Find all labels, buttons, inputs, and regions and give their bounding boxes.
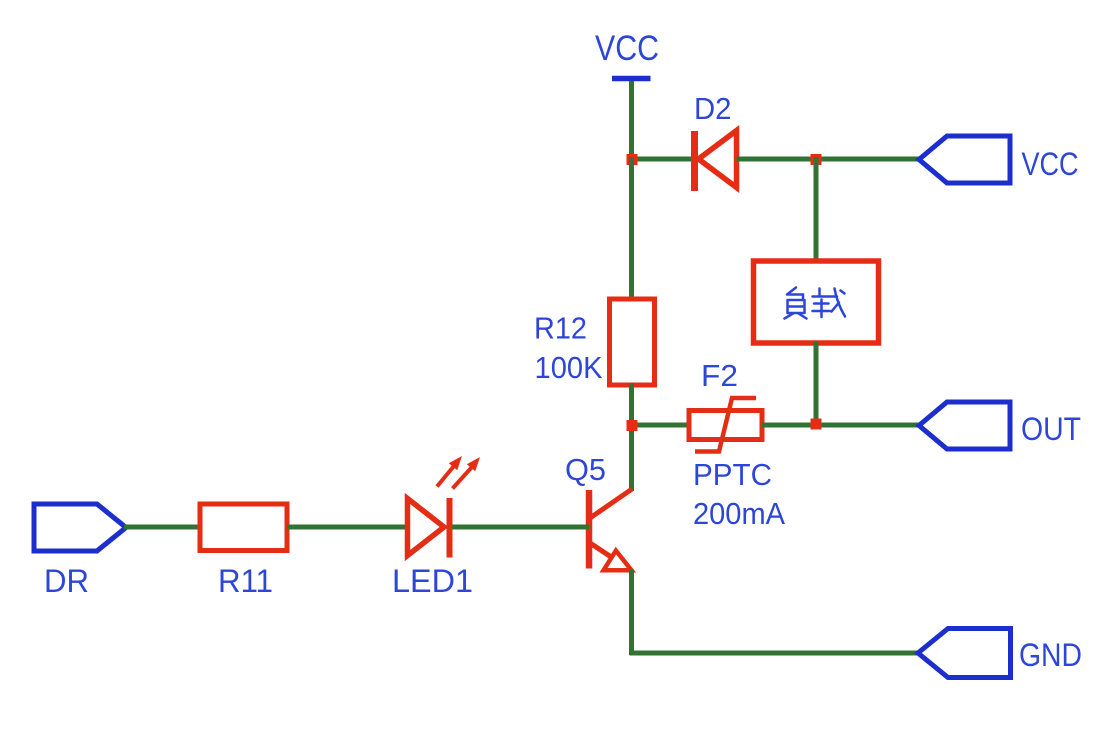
svg-text:PPTC: PPTC (693, 457, 772, 492)
resistor R11 (200, 504, 287, 551)
wire R11 to LED1 (287, 525, 409, 530)
svg-text:R11: R11 (218, 563, 273, 599)
junction node C (811, 419, 822, 430)
transistor Q5 (589, 489, 632, 570)
wire R12 to node D (629, 383, 634, 491)
wire node A to R12 (629, 157, 634, 301)
svg-text:100K: 100K (535, 350, 603, 385)
svg-text:LED1: LED1 (392, 563, 473, 599)
wire LED1 to Q5 base (452, 525, 589, 530)
wire port DR to R11 (124, 525, 202, 530)
wire node B to load (814, 157, 819, 263)
wire F2 to node C (762, 423, 816, 428)
load box (fuzai) (754, 261, 879, 343)
junction node D (627, 420, 638, 431)
svg-text:Q5: Q5 (565, 452, 606, 487)
wire node A to D2 anode (630, 157, 693, 162)
wire load to node C (814, 341, 819, 427)
fuse F2 PPTC (689, 398, 762, 452)
svg-text:R12: R12 (534, 311, 587, 346)
diode D2 (695, 131, 737, 192)
svg-text:GND: GND (1019, 637, 1082, 673)
LED LED1 (408, 456, 481, 558)
svg-text:VCC: VCC (595, 29, 659, 68)
wire node D to F2 (632, 423, 692, 428)
junction node A (627, 154, 638, 165)
svg-text:DR: DR (44, 563, 89, 599)
junction node B (811, 154, 822, 165)
wire D2 cathode to node B (737, 157, 817, 162)
svg-text:F2: F2 (701, 358, 738, 393)
wire node C to port OUT (816, 423, 921, 428)
svg-text:VCC: VCC (1022, 146, 1079, 182)
wire VCC flag to node A (629, 81, 634, 161)
resistor R12 (610, 299, 655, 385)
svg-text:OUT: OUT (1021, 411, 1081, 447)
svg-text:D2: D2 (694, 91, 732, 126)
glyph 负 (787, 288, 796, 295)
port DR (34, 504, 126, 599)
port GND (918, 629, 1082, 678)
wire Q5 emitter down (629, 570, 634, 655)
wire emitter to port GND (630, 651, 922, 656)
svg-text:200mA: 200mA (693, 496, 785, 531)
wire node B to port VCC (816, 157, 921, 162)
port OUT (919, 402, 1081, 449)
port VCC (919, 136, 1079, 183)
glyph 载 (813, 289, 838, 297)
power flag VCC (595, 29, 659, 79)
